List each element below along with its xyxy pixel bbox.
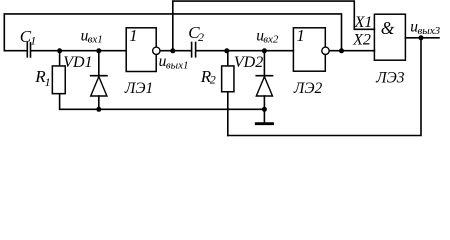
svg-text:вх2: вх2: [263, 33, 279, 45]
resistor R2 box: [222, 66, 234, 92]
svg-text:1: 1: [129, 26, 137, 45]
svg-text:вых3: вых3: [418, 25, 441, 37]
logic element LE2 box: [293, 28, 325, 71]
svg-text:ЛЭ3: ЛЭ3: [375, 70, 405, 87]
svg-text:1: 1: [30, 34, 36, 48]
wire LE2 out to X2 input: [329, 50, 374, 52]
wire left to C1: [4, 50, 26, 52]
diode VD2 wire top: [263, 51, 265, 75]
svg-text:2: 2: [210, 72, 216, 86]
svg-text:2: 2: [198, 30, 204, 44]
node dot VD1 bottom: [96, 107, 101, 112]
capacitor C2 plates: [191, 43, 193, 57]
svg-text:VD1: VD1: [63, 54, 92, 71]
wire R1 bottom to bus: [60, 94, 265, 110]
diode VD1 wire bottom: [98, 96, 100, 109]
logic element LE1 box: [126, 28, 156, 72]
diode VD1 cathode bar: [91, 75, 107, 77]
wire C2 to LE2 input: [196, 50, 293, 52]
svg-text:X1: X1: [354, 14, 373, 31]
wire R1 vertical top: [59, 51, 61, 66]
svg-text:вх1: вх1: [88, 33, 103, 45]
wire C1 to LE1 input: [31, 50, 126, 52]
wire LE3 output u_vyh3: [405, 37, 439, 39]
svg-text:ЛЭ1: ЛЭ1: [124, 80, 153, 97]
wire feedback A (u_vyh1 to X1 input): [173, 1, 375, 51]
svg-text:ЛЭ2: ЛЭ2: [293, 80, 323, 97]
LE1 output inversion circle: [153, 47, 160, 54]
wire LE1 out to C2: [160, 50, 190, 52]
node dot u_vyh1: [170, 48, 175, 53]
diode VD2 triangle: [256, 77, 272, 96]
svg-text:VD2: VD2: [234, 54, 263, 71]
node dot X2 junction: [339, 48, 344, 53]
diode VD1 triangle: [91, 77, 107, 96]
svg-text:1: 1: [297, 26, 305, 45]
logic element LE3 box: [374, 14, 405, 60]
node dot u_vh1: [96, 48, 101, 53]
ground symbol stem: [263, 109, 265, 122]
node dot VD2 bottom ground: [262, 107, 267, 112]
svg-text:X2: X2: [352, 31, 371, 48]
node dot u_vh2: [262, 48, 267, 53]
wire R2 bottom to lower bus: [227, 93, 229, 136]
diode VD2 wire bottom: [263, 96, 265, 109]
wire feedback B (LE2 output to C1 left): [4, 14, 341, 51]
diode VD1 wire top: [98, 51, 100, 75]
node dot C1-R1 junction: [57, 48, 62, 53]
LE2 output inversion circle: [322, 47, 329, 54]
wire R2 vertical top: [227, 51, 229, 66]
svg-text:1: 1: [45, 75, 51, 89]
ground symbol bar: [256, 122, 272, 125]
node dot R2 junction: [224, 48, 229, 53]
diode VD2 cathode bar: [256, 75, 272, 77]
capacitor C1 plates: [26, 43, 28, 57]
node dot u_vyh3: [419, 35, 424, 40]
svg-text:вых1: вых1: [166, 60, 189, 72]
resistor R1 box: [52, 66, 65, 94]
svg-text:&: &: [381, 18, 395, 38]
wire output feedback leg to bottom bus: [228, 38, 421, 136]
